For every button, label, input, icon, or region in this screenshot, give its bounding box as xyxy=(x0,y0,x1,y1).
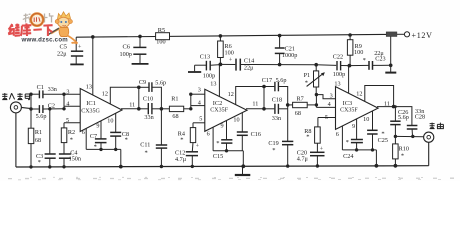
node C21 to mid wire xyxy=(278,63,282,67)
wire +12V top rail xyxy=(76,34,386,37)
node pins 3-4 column bottom xyxy=(62,107,65,110)
output terminal 输出 xyxy=(424,132,434,166)
wire IC1 ground drop xyxy=(120,149,122,166)
svg-text:5.6p: 5.6p xyxy=(276,77,287,84)
capacitor C17 xyxy=(264,82,288,105)
capacitor C19 xyxy=(282,141,293,166)
wire IC2 ground drop xyxy=(242,151,244,167)
red text 维库一下 (drawn strokes) xyxy=(8,23,52,36)
svg-text:1000p: 1000p xyxy=(282,52,297,59)
node bus C3 xyxy=(48,165,51,168)
svg-text:68: 68 xyxy=(295,110,301,117)
svg-text:CX35F: CX35F xyxy=(340,108,358,114)
wire IC2 pin 5 xyxy=(193,122,205,124)
node R7 input xyxy=(286,103,290,107)
wire IC1 pin 5 xyxy=(64,122,80,124)
wire IC3 pin 4 xyxy=(316,106,335,108)
wire IC3 pins column xyxy=(315,95,317,108)
node IC3 pins column R7 xyxy=(315,103,318,106)
ground bar under C23 xyxy=(385,72,396,74)
wire IC3 pin 5 xyxy=(318,117,336,119)
node C25 ground xyxy=(371,148,374,151)
mascot body xyxy=(59,28,69,37)
label 输出 (drawn strokes) xyxy=(430,123,444,129)
resistor R6 xyxy=(218,36,224,65)
svg-text:6: 6 xyxy=(207,131,210,138)
svg-text:*: * xyxy=(38,159,41,166)
wire pin 13 riser IC1 xyxy=(92,37,94,95)
op-amp IC3 CX35F xyxy=(336,87,379,130)
node P1 top xyxy=(314,63,318,67)
node bus IC1 ground xyxy=(119,165,123,169)
node bus IC3 ground xyxy=(375,164,379,168)
op-amp IC1 CX35G xyxy=(80,89,122,132)
resistor R10 xyxy=(393,136,399,165)
capacitor C6 xyxy=(132,36,149,64)
mascot tail xyxy=(68,36,78,44)
svg-text:4: 4 xyxy=(66,101,69,108)
wire pins column IC1 xyxy=(63,94,65,109)
resistor R2 xyxy=(61,123,67,154)
node IC2 output tie xyxy=(262,107,266,111)
svg-text:10: 10 xyxy=(233,116,239,123)
resistor R9 xyxy=(347,35,353,66)
ground symbol xyxy=(235,166,251,175)
node bus C19 xyxy=(286,164,289,167)
svg-text:C24: C24 xyxy=(343,153,353,160)
label 输入信号 (drawn strokes) xyxy=(2,93,29,100)
svg-text:100p: 100p xyxy=(203,72,215,79)
capacitor C22 xyxy=(337,61,349,70)
svg-text:*: * xyxy=(125,137,128,144)
node C24 ground xyxy=(355,148,358,151)
svg-text:C19: C19 xyxy=(268,140,278,147)
node rail to R9 xyxy=(348,33,352,37)
capacitor C13 with ground xyxy=(188,61,220,72)
svg-text:+: + xyxy=(229,58,233,64)
wire IC2 pin 4 xyxy=(191,105,205,107)
capacitor C5 xyxy=(70,37,83,64)
node output line / R10 xyxy=(394,135,397,138)
capacitor C9 xyxy=(139,82,162,109)
mascot eyes xyxy=(60,21,62,23)
svg-text:www.dzsc.com: www.dzsc.com xyxy=(21,37,69,44)
svg-text:9: 9 xyxy=(352,123,355,130)
svg-text:+: + xyxy=(196,143,200,149)
wire IC2 pin 6 xyxy=(212,127,214,151)
svg-text:*: * xyxy=(180,136,183,143)
svg-text:5: 5 xyxy=(199,116,202,123)
node rail to C21 xyxy=(278,34,282,38)
+12V terminal xyxy=(404,32,409,37)
wire IC2 pin 11 output xyxy=(246,108,264,110)
watermark dzsc.com logo group xyxy=(8,12,77,44)
node C15 ground xyxy=(225,149,228,152)
svg-text:13: 13 xyxy=(86,84,92,91)
magnifier ring logo xyxy=(31,13,43,25)
svg-text:*: * xyxy=(346,139,349,146)
svg-text:11: 11 xyxy=(384,100,390,107)
resistor R4 xyxy=(190,123,195,152)
capacitor C10 xyxy=(139,103,162,114)
svg-text:6: 6 xyxy=(336,131,339,138)
svg-text:+12V: +12V xyxy=(412,31,433,40)
capacitor C15 xyxy=(221,121,232,151)
svg-text:C10: C10 xyxy=(143,95,153,102)
svg-text:6: 6 xyxy=(82,129,85,136)
node bus R10 xyxy=(394,164,398,168)
wire mid supply line C21 to P1 xyxy=(280,64,317,66)
svg-text:*: * xyxy=(401,152,404,159)
wire bead to ground drop xyxy=(390,37,392,72)
svg-text:100p: 100p xyxy=(333,71,345,78)
svg-text:11: 11 xyxy=(252,101,258,108)
svg-text:IC1: IC1 xyxy=(86,100,96,107)
resistor R5 xyxy=(156,33,170,40)
node pins 3-4 column top xyxy=(62,93,65,96)
svg-text:3: 3 xyxy=(66,88,69,95)
wire IC1 pin 11 output xyxy=(121,108,139,110)
svg-text:12: 12 xyxy=(228,91,234,98)
node C26 tap xyxy=(394,105,397,108)
svg-text:68: 68 xyxy=(35,137,41,144)
wire IC3 pin 11 output xyxy=(377,106,394,108)
capacitor C3 xyxy=(45,109,56,167)
node C28 to jack xyxy=(411,135,414,138)
wire IC3 pin 3 xyxy=(316,95,335,99)
resistor R7 xyxy=(288,102,317,107)
svg-text:100: 100 xyxy=(156,39,165,46)
gray char 片 behind xyxy=(45,13,54,23)
capacitor C4 xyxy=(59,154,71,167)
capacitor C23 electrolytic xyxy=(349,61,390,70)
wire output to C28 corner xyxy=(394,107,412,126)
wire IC1 ground wire xyxy=(86,148,121,150)
node output tie xyxy=(137,107,141,111)
node coupling to R3 xyxy=(160,107,164,111)
svg-text:R1: R1 xyxy=(171,96,178,103)
wire IC1 pin 3 xyxy=(64,93,80,95)
svg-text:R5: R5 xyxy=(158,27,165,34)
wire IC1 pin 4 xyxy=(64,105,80,107)
node C23 to +12V drop xyxy=(389,64,393,68)
mascot ears xyxy=(55,20,59,24)
node input junction bottom xyxy=(29,107,32,110)
svg-text:33n: 33n xyxy=(144,114,153,121)
wire mid line P1 to C22 xyxy=(316,64,336,67)
svg-text:10: 10 xyxy=(107,118,113,125)
ground bus xyxy=(16,166,429,167)
svg-text:10: 10 xyxy=(363,116,369,123)
svg-text:*: * xyxy=(363,57,366,64)
svg-text:C25: C25 xyxy=(378,137,388,144)
capacitor C16 xyxy=(237,113,248,151)
svg-text:33n: 33n xyxy=(272,115,281,122)
capacitor C11 xyxy=(156,109,167,167)
capacitor C28 xyxy=(407,126,418,137)
node IC2 pins 3-4 column top xyxy=(189,93,192,96)
svg-text:C1: C1 xyxy=(37,84,44,91)
svg-text:C7: C7 xyxy=(90,133,97,140)
svg-text:4.7μ: 4.7μ xyxy=(297,155,309,162)
potentiometer P1 xyxy=(307,65,325,95)
node C8 ground xyxy=(114,148,117,151)
svg-text:22μ: 22μ xyxy=(244,65,254,72)
svg-text:*: * xyxy=(145,149,148,156)
svg-text:*: * xyxy=(272,147,275,154)
capacitor C18 xyxy=(264,104,288,114)
node IC2 pins column bottom xyxy=(189,107,192,110)
svg-text:5.6p: 5.6p xyxy=(398,114,409,121)
wire IC1 pin 12 xyxy=(110,87,139,104)
bottom scan edge band xyxy=(8,177,455,180)
mascot crown xyxy=(58,12,71,19)
node C7 ground xyxy=(99,148,102,151)
node bus C20 xyxy=(316,164,319,167)
wire input jack ground stem xyxy=(15,113,17,167)
capacitor C26 xyxy=(390,107,400,137)
node output tie stage3 xyxy=(392,105,396,109)
node rail to R6 xyxy=(219,34,223,38)
svg-text:C17: C17 xyxy=(262,77,272,84)
wire IC3 ground wire xyxy=(342,149,376,151)
svg-text:*: * xyxy=(216,140,219,147)
svg-text:C13: C13 xyxy=(200,54,210,61)
svg-text:12: 12 xyxy=(102,90,108,97)
svg-text:C28: C28 xyxy=(415,114,425,121)
wire R7 column down xyxy=(287,105,289,141)
svg-text:3: 3 xyxy=(198,86,201,93)
capacitor C12 electrolytic xyxy=(186,152,198,167)
svg-text:100: 100 xyxy=(354,49,363,56)
svg-text:P1: P1 xyxy=(304,72,311,79)
svg-text:*: * xyxy=(306,134,309,141)
wire IC2 pin 13 riser xyxy=(218,64,220,96)
wire output line to jack xyxy=(395,135,423,137)
svg-text:3: 3 xyxy=(330,92,333,99)
wire IC3 ground drop xyxy=(375,150,377,166)
wire IC3 pin 12 xyxy=(365,86,394,107)
wire IC2 ground wire xyxy=(213,150,243,152)
svg-text:100p: 100p xyxy=(120,51,132,58)
svg-text:100: 100 xyxy=(225,49,234,56)
capacitor C7 xyxy=(95,121,107,150)
node pin12/pin11 tie top xyxy=(137,86,141,90)
svg-text:C18: C18 xyxy=(272,96,282,103)
svg-text:C15: C15 xyxy=(213,153,223,160)
node IC3 pins column / P1 bottom xyxy=(315,93,318,96)
svg-text:C6: C6 xyxy=(123,44,130,51)
svg-text:C22: C22 xyxy=(333,53,343,60)
capacitor C20 electrolytic xyxy=(310,152,325,166)
svg-text:4: 4 xyxy=(198,100,201,107)
mascot head xyxy=(58,17,70,27)
wire tie vertical xyxy=(138,87,140,109)
svg-text:4: 4 xyxy=(328,101,331,108)
node rail to C6 xyxy=(138,35,142,39)
svg-text:R2: R2 xyxy=(68,129,75,136)
svg-text:4.7μ: 4.7μ xyxy=(175,156,187,163)
svg-text:33n: 33n xyxy=(48,86,57,93)
svg-text:68: 68 xyxy=(172,113,178,120)
wire IC2 pin 12 xyxy=(236,87,264,105)
svg-text:5.6p: 5.6p xyxy=(155,79,166,86)
svg-text:*: * xyxy=(305,79,308,86)
wire IC2 pin 3 xyxy=(191,93,205,95)
svg-text:150n: 150n xyxy=(69,155,81,162)
svg-text:*: * xyxy=(94,143,97,150)
input terminal 输入信号 xyxy=(10,102,31,113)
capacitor C14 electrolytic xyxy=(220,59,279,71)
node bus C12 xyxy=(191,165,194,168)
svg-text:9: 9 xyxy=(221,122,224,129)
capacitor C1 xyxy=(31,90,64,98)
capacitor C2 xyxy=(31,105,64,113)
gray char 找 behind xyxy=(23,14,32,23)
wire IC1 pin 6 xyxy=(85,128,87,149)
svg-text:C23: C23 xyxy=(375,55,385,62)
svg-text:13: 13 xyxy=(210,81,216,88)
op-amp IC2 CX35F xyxy=(205,89,247,131)
node C2/C3 xyxy=(48,107,51,110)
svg-text:CX35F: CX35F xyxy=(210,108,228,114)
node input junction top xyxy=(29,93,32,96)
wire IC3 pin 6 xyxy=(341,126,343,150)
ferrite bead on +12V rail xyxy=(386,32,397,37)
svg-text:*: * xyxy=(70,136,73,143)
wire input junction vertical xyxy=(30,94,32,109)
node bus IC2 ground xyxy=(241,164,245,168)
capacitor C25 xyxy=(367,111,378,150)
node rail to IC1 pin 13 xyxy=(91,35,95,39)
wire rail to +12V terminal xyxy=(397,33,404,35)
mascot arm with pen xyxy=(51,29,61,34)
svg-text:C11: C11 xyxy=(140,141,150,148)
resistor R3 xyxy=(161,106,190,111)
svg-text:CX35G: CX35G xyxy=(81,108,100,114)
svg-text:C9: C9 xyxy=(139,79,146,86)
svg-text:C5: C5 xyxy=(60,44,67,51)
node bus R1 xyxy=(29,165,32,168)
svg-text:+: + xyxy=(78,44,82,50)
svg-text:IC3: IC3 xyxy=(343,100,353,107)
resistor R8 xyxy=(315,118,321,153)
wire IC2 pins column xyxy=(190,94,192,109)
svg-text:IC2: IC2 xyxy=(213,100,223,107)
node bus C4 xyxy=(62,165,65,168)
resistor R1 xyxy=(28,109,34,167)
node IC2 tie top xyxy=(262,85,266,89)
svg-text:R1: R1 xyxy=(35,129,42,136)
svg-text:R7: R7 xyxy=(297,96,304,103)
svg-text:5.6p: 5.6p xyxy=(36,113,47,120)
svg-text:22μ: 22μ xyxy=(57,51,67,58)
svg-text:12: 12 xyxy=(356,90,362,97)
node bus C11 xyxy=(160,165,163,168)
svg-text:C16: C16 xyxy=(251,131,261,138)
svg-text:11: 11 xyxy=(129,101,135,108)
capacitor C21 xyxy=(275,36,285,65)
svg-text:9: 9 xyxy=(96,123,99,130)
svg-text:5: 5 xyxy=(325,114,328,121)
capacitor C24 xyxy=(351,119,363,150)
wire IC3 pin 13 riser xyxy=(348,66,350,94)
node R6 / C13 / C14 / IC2 pin13 xyxy=(219,63,223,67)
wire IC2 tie vertical xyxy=(263,87,265,109)
svg-text:5: 5 xyxy=(66,117,69,124)
node R9 / C22 / C23 / IC3 pin13 xyxy=(348,64,352,68)
capacitor C8 xyxy=(110,113,121,149)
